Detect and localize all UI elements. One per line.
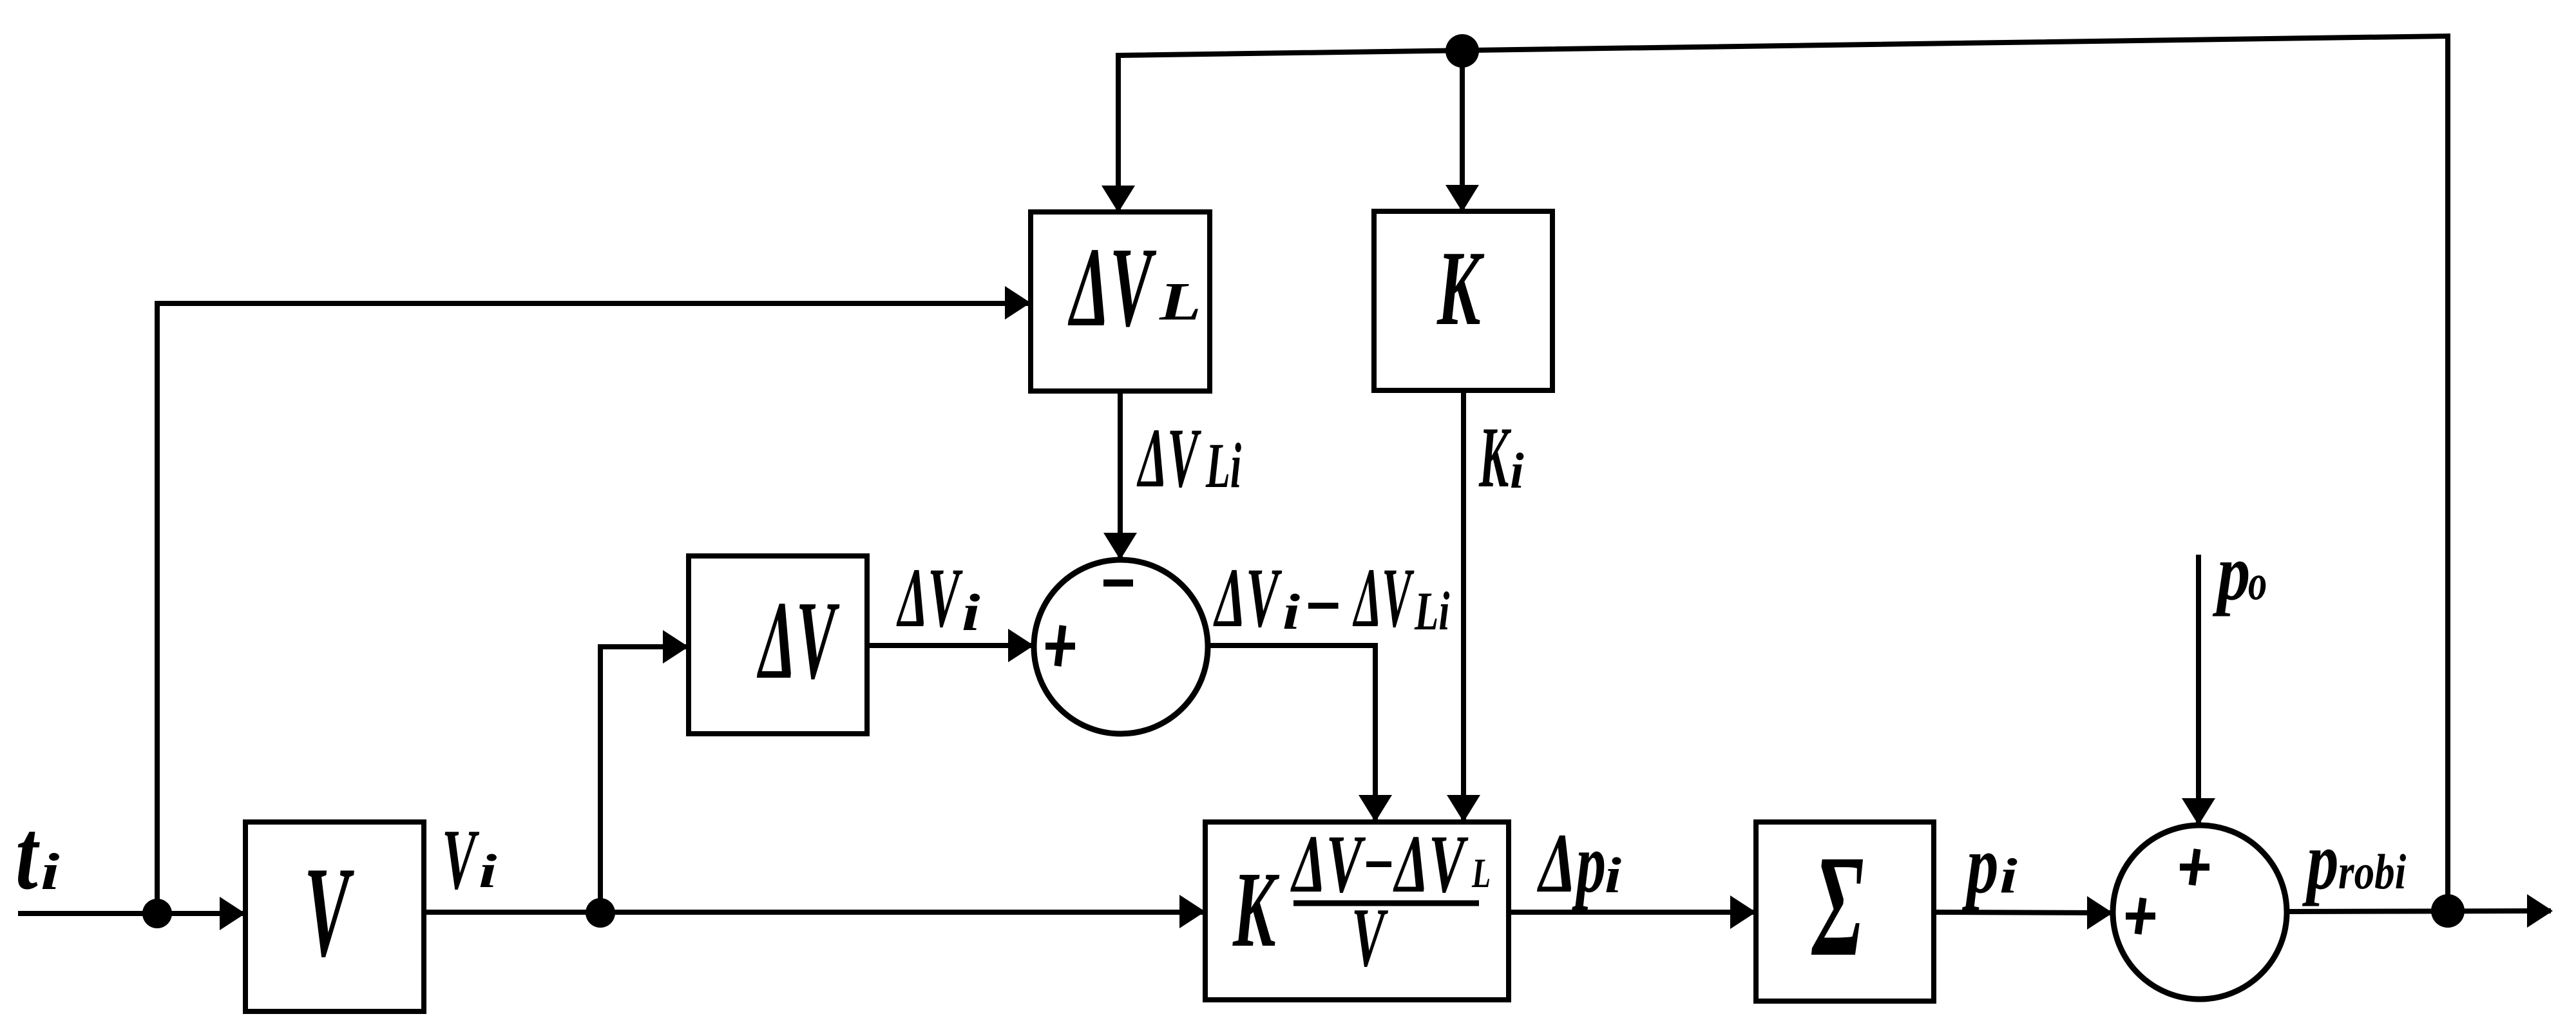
svg-text:L: L (1471, 850, 1491, 897)
svg-text:ΔV: ΔV (1213, 551, 1283, 645)
svg-text:V: V (442, 812, 479, 908)
svg-text:Σ: Σ (1811, 825, 1864, 986)
svg-text:i: i (479, 845, 497, 897)
svg-text:Δp: Δp (1537, 816, 1606, 910)
svg-text:ΔV: ΔV (1068, 224, 1157, 350)
svg-text:i: i (1283, 584, 1301, 640)
svg-text:ΔV: ΔV (757, 578, 840, 703)
svg-text:p: p (1961, 819, 1998, 910)
svg-text:−: − (1303, 559, 1342, 653)
svg-text:p: p (2302, 815, 2338, 906)
svg-text:L: L (1159, 271, 1201, 331)
svg-text:i: i (41, 844, 59, 901)
svg-text:p: p (2212, 528, 2251, 617)
svg-text:i: i (1999, 849, 2018, 904)
svg-text:ΔV: ΔV (896, 551, 963, 645)
svg-text:K: K (1478, 410, 1511, 506)
svg-text:i: i (1605, 847, 1621, 903)
svg-text:robi: robi (2338, 845, 2407, 899)
svg-text:i: i (962, 584, 980, 642)
svg-text:K: K (1232, 850, 1280, 970)
svg-text:i: i (1510, 443, 1524, 499)
svg-text:V: V (1351, 891, 1389, 984)
svg-text:o: o (2248, 555, 2267, 610)
svg-text:K: K (1436, 229, 1484, 348)
svg-text:t: t (15, 799, 40, 910)
svg-text:V: V (304, 840, 354, 984)
svg-text:Li: Li (1414, 581, 1450, 642)
svg-text:Li: Li (1205, 430, 1241, 501)
svg-text:ΔV: ΔV (1136, 410, 1201, 505)
svg-text:ΔV: ΔV (1352, 550, 1415, 645)
